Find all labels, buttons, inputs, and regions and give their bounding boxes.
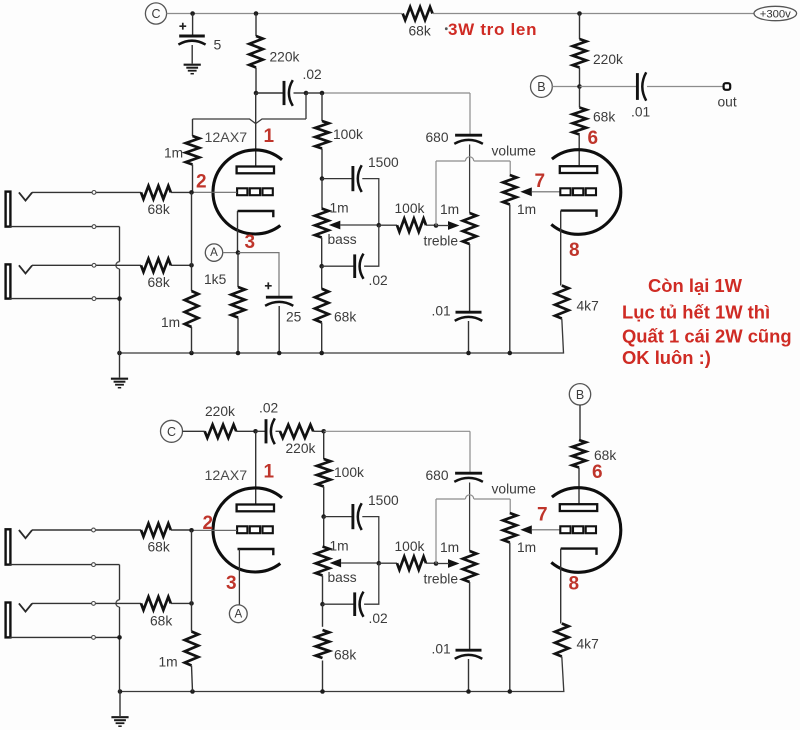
wire B to junction: [552, 86, 579, 88]
svg-text:1m: 1m: [517, 202, 536, 217]
wire grid row (bottom tube1): [192, 529, 237, 531]
ground rail junction dots: [117, 351, 122, 356]
junction dot jack2 sleeve bottom: [117, 635, 122, 640]
input jack 1 (bottom circuit): [6, 529, 11, 564]
svg-text:volume: volume: [492, 144, 537, 159]
wire 1m lower to ground rail: [191, 327, 193, 353]
svg-text:.02: .02: [369, 273, 388, 288]
wire tone feed across to 680 corner: [306, 92, 322, 94]
node dot after coupling cap: [304, 91, 309, 96]
junction dot B node: [577, 84, 582, 89]
wire 100k to 1500 node: [321, 149, 323, 179]
junction dot cathode node: [236, 250, 241, 255]
svg-text:2: 2: [203, 513, 214, 534]
wire 4k7 to rail corner (bottom): [120, 657, 564, 692]
tube right triode envelope (bottom): [551, 488, 620, 573]
resistor 68k in supply rail: [402, 6, 433, 21]
input jack 2 (top circuit): [6, 264, 11, 298]
svg-text:8: 8: [569, 240, 580, 261]
svg-text:1: 1: [264, 462, 275, 483]
svg-text:6: 6: [592, 462, 603, 483]
junction dot grid node: [189, 190, 194, 195]
ground rail junction dots (bottom): [118, 689, 123, 694]
capacitor .01 tone: [456, 311, 482, 314]
resistor 220k (left plate load): [249, 36, 263, 68]
wire feedback horizontal with V notch at plate lead: [193, 119, 307, 124]
wire volume node right leg to volume pot: [509, 161, 511, 175]
wire bass pot down to .02 node: [321, 238, 323, 267]
wire rail down to right 220k: [579, 14, 581, 40]
svg-text:C: C: [167, 425, 176, 439]
junction on rail at 220k: [254, 11, 259, 16]
resistor 220k series (bottom): [205, 425, 237, 438]
volume node horizontal wire (bottom): [436, 498, 465, 500]
svg-text:68k: 68k: [150, 614, 172, 629]
wire bass pot to .02 node (bottom): [322, 576, 324, 605]
wire jack1 sleeve (bottom): [10, 564, 120, 566]
wire cap 25 to ground rail: [278, 306, 280, 353]
wire bass wiper to junction: [340, 224, 379, 226]
resistor 100k vertical (bottom): [317, 459, 331, 487]
wire 1k5 to ground rail: [237, 318, 239, 354]
wire 100k top: [321, 93, 323, 121]
svg-text:1k5: 1k5: [204, 272, 227, 287]
wire coupling cap to tone node: [294, 92, 307, 94]
wire jack2 sleeve (bottom): [10, 636, 120, 638]
junction dot grid node bottom: [189, 528, 194, 533]
svg-text:2: 2: [196, 172, 207, 193]
tube plate bar bottom1: [237, 505, 274, 512]
wire bass wiper to junction (bottom): [341, 562, 379, 564]
wire to 68k tone (bottom): [322, 604, 324, 627]
wire jack2 tip to 68k: [32, 264, 141, 266]
capacitor .02 bass (bottom): [353, 592, 356, 616]
wire 680 down to treble (bottom): [469, 483, 471, 552]
tube right grid squares (bottom): [560, 526, 570, 533]
wire 220k to plate node: [236, 430, 255, 432]
capacitor .02 coupling (top): [283, 81, 286, 105]
wire cap .02 up corner to wiper junction: [364, 225, 379, 266]
wire cap 1500 corner down (bottom): [362, 517, 379, 564]
svg-text:220k: 220k: [593, 52, 623, 67]
resistor 68k (bottom right): [572, 440, 586, 468]
resistor 4k7 (bottom): [555, 624, 569, 657]
junction dot .02 node bottom: [320, 602, 325, 607]
wire 4k7 to ground rail corner: [120, 319, 564, 354]
resistor 68k tone stack bottom: [315, 289, 329, 323]
resistor 100k (tone stack vertical): [315, 121, 329, 149]
wire 68k input1 to grid node: [171, 191, 192, 193]
svg-text:100k: 100k: [334, 465, 364, 480]
svg-text:220k: 220k: [286, 441, 316, 456]
junction dot jack2 sleeve: [117, 296, 122, 301]
out terminal square: [724, 83, 731, 90]
tube plate bar (pin 1): [237, 167, 274, 174]
wire 68k tone to ground rail: [321, 323, 323, 354]
svg-text:12AX7: 12AX7: [205, 130, 248, 146]
wire jack2 tip (bottom): [32, 602, 141, 604]
svg-text:.01: .01: [631, 105, 650, 120]
wire 100k to 1500 node (bottom): [323, 487, 325, 517]
wire 1500 node to cap 1500: [322, 178, 353, 180]
contact circle jack2 sleeve bottom: [92, 636, 96, 640]
wire jack column with hop (bottom): [119, 565, 121, 600]
wire left column (bottom): [191, 530, 193, 603]
wire .02 node to cap .02: [322, 265, 355, 267]
wire jack column down with hop: [119, 227, 121, 262]
wire cap 1500 to corner and down: [362, 179, 379, 226]
contact circle jack2 tip bottom: [92, 602, 96, 606]
svg-text:Quất 1 cái 2W cũng: Quất 1 cái 2W cũng: [622, 326, 792, 347]
svg-text:1m: 1m: [161, 315, 180, 330]
wire cathode node to bypass cap corner: [238, 253, 279, 297]
volume wiper arrow (bottom): [520, 525, 532, 534]
wire cathode lead down: [237, 211, 239, 253]
power terminal +300v oval: [754, 6, 797, 20]
wire feedback: down from tone node: [305, 93, 307, 119]
input jack 1 (top circuit): [6, 192, 11, 227]
capacitor .02 (bass): [353, 254, 356, 278]
junction dot at 100k top: [320, 91, 325, 96]
volume node left leg (bottom): [435, 499, 437, 564]
resistor 1k5 cathode: [231, 287, 245, 318]
junction dot 1500 node: [320, 176, 325, 181]
wire 68k to plate (bottom tube2): [578, 468, 580, 505]
wire cathode lead down to A (bottom): [238, 549, 240, 605]
wire B node to .01 out cap: [580, 86, 638, 88]
svg-text:1m: 1m: [159, 655, 178, 670]
capacitor 5 electrolytic plus sign: [179, 23, 186, 30]
wire 100k top (bottom): [323, 431, 325, 459]
svg-text:1m: 1m: [440, 202, 459, 217]
volume wiper arrow: [520, 187, 532, 196]
resistor 220k right: [573, 39, 587, 68]
wire grid row from junction into tube: [192, 191, 237, 193]
wire .02 to 220k2 (bottom): [276, 430, 282, 432]
node A circle (top): [205, 244, 222, 261]
wire .01 out cap to out terminal: [647, 86, 724, 88]
wire plate node to .02 (bottom): [256, 430, 267, 432]
svg-text:A: A: [234, 608, 242, 620]
svg-text:220k: 220k: [270, 50, 300, 65]
wire B node down to 68k: [579, 87, 581, 108]
potentiometer volume 1m body: [503, 175, 517, 205]
junction dot .02 bass node: [319, 264, 324, 269]
wire volume wiper to grid (bottom): [532, 529, 561, 531]
wire to cap 1500 (bottom): [324, 516, 353, 518]
svg-text:bass: bass: [328, 232, 357, 247]
wire horizontal 100k to treble row: [379, 224, 397, 226]
svg-text:1m: 1m: [517, 540, 536, 555]
svg-text:volume: volume: [492, 482, 537, 497]
node plate junction dot: [254, 91, 259, 96]
svg-text:3: 3: [245, 232, 256, 253]
svg-text:7: 7: [535, 171, 546, 192]
svg-text:100k: 100k: [333, 127, 363, 142]
volume node right leg (bottom): [509, 499, 511, 513]
svg-text:68k: 68k: [334, 310, 356, 325]
svg-text:1m: 1m: [330, 201, 349, 216]
svg-text:68k: 68k: [593, 110, 615, 125]
svg-text:4k7: 4k7: [577, 637, 599, 652]
wire jack1 tip (bottom): [32, 529, 141, 531]
svg-text:Còn lại 1W: Còn lại 1W: [648, 275, 743, 296]
wire 680 down through volume node to treble pot: [469, 145, 471, 214]
wire rail to 220k plate resistor: [255, 14, 257, 37]
svg-text:1m: 1m: [164, 146, 183, 161]
wire to grid node (bottom): [171, 529, 192, 531]
capacitor 680: [455, 134, 482, 137]
wire tone node to 680 corner (bottom): [324, 430, 470, 432]
capacitor .02 coupling (bottom): [265, 419, 268, 443]
wire B down to 68k (bottom): [579, 405, 581, 440]
svg-text:1: 1: [264, 126, 275, 147]
contact circle jack2 sleeve: [92, 297, 96, 301]
wire volume pot to rail (bottom): [509, 543, 511, 692]
svg-text:68k: 68k: [148, 275, 170, 290]
capacitor .01 (bottom): [456, 649, 482, 652]
resistor 68k tone (bottom): [316, 630, 330, 658]
ground symbol (bottom circuit): [119, 692, 121, 717]
svg-text:5: 5: [214, 37, 222, 53]
wire treble to .01 (bottom): [469, 582, 471, 649]
resistor 100k horizontal: [397, 219, 426, 232]
node B circle (bottom): [569, 384, 590, 405]
wire top supply rail: [167, 13, 754, 15]
node C (top) terminal circle: [145, 3, 166, 24]
contact circle jack1 tip bottom: [92, 528, 96, 532]
node A circle (bottom): [229, 605, 247, 623]
volume node horizontal wire with hop: [436, 160, 465, 162]
wire down from 680 corner to 680 cap: [469, 93, 471, 134]
svg-text:68k: 68k: [594, 448, 616, 463]
junction dot treble node bottom: [434, 561, 439, 566]
wire cathode node down to 1k5: [237, 253, 239, 287]
wire cap .02 corner up (bottom): [364, 563, 379, 604]
wire .01 to ground rail: [468, 321, 470, 353]
contact circle jack1 sleeve bottom: [92, 563, 96, 567]
svg-text:1500: 1500: [368, 155, 399, 170]
wire 1m to rail (bottom): [192, 666, 193, 692]
resistor 100k horizontal (bottom): [397, 557, 426, 570]
wire plate lead down into tube pin 1: [255, 93, 257, 167]
svg-text:68k: 68k: [148, 202, 170, 217]
contact circle jack1 tip: [92, 191, 96, 195]
wire C to 220k series: [183, 430, 205, 432]
tube cathode bottom1: [238, 549, 274, 555]
svg-text:6: 6: [588, 128, 599, 149]
wire jack1 tip to 68k: [32, 191, 141, 193]
svg-text:+300v: +300v: [760, 9, 791, 21]
wire bass node down to 68k: [321, 266, 323, 289]
potentiometer bass 1m (bottom): [316, 547, 330, 576]
potentiometer treble 1m (bottom): [463, 551, 477, 582]
resistor 68k input 1: [141, 186, 171, 199]
capacitor 1500: [351, 166, 354, 191]
ground symbol below cap 5: [184, 64, 201, 66]
wire jack2 sleeve: [10, 298, 120, 300]
wire from rail down to filter cap 5: [192, 14, 194, 36]
input jack 2 (bottom circuit): [6, 603, 11, 638]
bass wiper arrow (bottom): [330, 559, 342, 568]
potentiometer treble 1m body: [463, 213, 477, 244]
capacitor .01 output: [636, 73, 639, 100]
wire 68k to tube plate pin 6: [578, 135, 580, 167]
svg-text:3: 3: [226, 573, 237, 594]
junction dot 1500 node (bottom): [321, 514, 326, 519]
wire node A to cathode junction: [223, 252, 238, 254]
svg-text:Lục tủ hết 1W thì: Lục tủ hết 1W thì: [622, 301, 770, 322]
wire volume node left leg down to treble wiper junction: [435, 161, 437, 226]
svg-text:220k: 220k: [205, 404, 235, 419]
ground symbol main (top circuit): [119, 353, 121, 378]
wire 220k to plate node: [255, 68, 257, 94]
capacitor 25 electrolytic bypass: [266, 296, 293, 299]
tube right cathode (bottom): [561, 549, 597, 555]
junction dot plate node (bottom): [253, 429, 258, 434]
junction dot tone node (bottom): [321, 429, 326, 434]
junction on rail at right 220k: [577, 11, 582, 16]
treble wiper arrow: [448, 221, 460, 230]
wire left column 1m lower: [191, 192, 193, 265]
wire to treble junction (bottom): [426, 562, 436, 564]
svg-text:8: 8: [569, 574, 580, 595]
node C circle (bottom): [161, 420, 183, 442]
svg-text:68k: 68k: [409, 24, 431, 39]
wire 68k input2 to column (bottom): [171, 602, 192, 604]
junction on rail at filter cap: [190, 11, 195, 16]
resistor 220k series 2 (bottom): [280, 425, 313, 438]
svg-text:1m: 1m: [330, 539, 349, 554]
tube right plate bar (bottom): [560, 504, 597, 511]
tube right cathode (pin 8): [561, 211, 597, 217]
node B circle (top): [531, 76, 553, 98]
svg-text:68k: 68k: [334, 648, 356, 663]
svg-text:.01: .01: [432, 304, 451, 319]
svg-text:1m: 1m: [440, 540, 459, 555]
wire 220k2 to tone node: [313, 430, 324, 432]
tube right grid squares (pin 7): [560, 188, 570, 195]
tube grid squares bottom1: [237, 526, 247, 533]
contact circle jack1 sleeve: [92, 225, 96, 229]
svg-text:1500: 1500: [368, 493, 399, 508]
wire jack1 sleeve: [10, 226, 120, 228]
wire plate lead (bottom tube1): [255, 431, 257, 504]
wire cathode down to 4k7 (bottom): [560, 549, 562, 624]
capacitor 5 (filter cap): [179, 35, 205, 38]
bass wiper arrow: [329, 221, 341, 230]
svg-text:.02: .02: [259, 401, 278, 416]
tube right triode envelope (top): [551, 150, 620, 235]
svg-text:680: 680: [426, 468, 449, 483]
svg-text:.01: .01: [432, 642, 451, 657]
svg-text:.02: .02: [369, 611, 388, 626]
resistor 1m (upper, feedback): [186, 136, 200, 165]
tube 12AX7 left triode envelope: [213, 150, 282, 234]
svg-text:3W tro len: 3W tro len: [448, 20, 537, 39]
wire .01 to rail (bottom): [468, 659, 470, 692]
resistor 1m lower left: [185, 291, 199, 327]
wire plate node to coupling cap: [256, 92, 284, 94]
wire to cap .02 (bottom): [323, 603, 355, 605]
contact circle jack2 tip: [92, 263, 96, 267]
resistor 1m lower (bottom): [185, 632, 199, 666]
capacitor 25 bypass plus sign: [265, 282, 272, 289]
svg-text:C: C: [151, 7, 160, 21]
svg-text:bass: bass: [328, 570, 357, 585]
svg-text:B: B: [576, 388, 584, 402]
wire down to 1m grid resistor (upper): [192, 119, 194, 136]
wire volume wiper to tube grid: [532, 191, 561, 193]
svg-text:out: out: [718, 95, 737, 110]
junction dot input2 node: [189, 263, 194, 268]
svg-text:100k: 100k: [395, 201, 425, 216]
svg-text:680: 680: [426, 130, 449, 145]
wire right cathode down to 4k7: [560, 211, 562, 286]
resistor 68k right: [573, 108, 587, 135]
svg-text:.02: .02: [303, 67, 322, 82]
wire 68k input2 to column: [171, 264, 192, 266]
potentiometer bass 1m body: [315, 209, 329, 238]
resistor 4k7: [555, 286, 569, 319]
resistor 68k input1 (bottom): [141, 523, 171, 536]
resistor 68k input 2: [141, 259, 171, 272]
wire volume pot bottom to ground rail: [509, 205, 511, 354]
tube 12AX7 left triode envelope (bottom): [213, 488, 282, 572]
junction dot treble wiper node: [434, 223, 439, 228]
svg-text:OK luôn :): OK luôn :): [622, 347, 711, 368]
svg-text:4k7: 4k7: [577, 299, 599, 314]
capacitor 1500 (bottom): [351, 504, 354, 529]
wire down to 680 (bottom): [469, 431, 471, 472]
svg-text:A: A: [210, 247, 218, 259]
junction dot input2 bottom: [189, 601, 194, 606]
svg-text:68k: 68k: [148, 540, 170, 555]
tube cathode (pin 3): [238, 211, 274, 217]
svg-text:B: B: [537, 80, 545, 94]
junction dot bass wiper bottom: [377, 561, 382, 566]
wire bass column down to pot: [321, 179, 323, 209]
svg-text:7: 7: [537, 505, 548, 526]
wire 1m to grid node: [192, 165, 194, 193]
svg-text:treble: treble: [424, 572, 459, 587]
capacitor 680 (bottom): [455, 472, 482, 475]
svg-text:100k: 100k: [395, 539, 425, 554]
svg-text:treble: treble: [424, 234, 459, 249]
wire bass column (bottom): [323, 517, 325, 547]
potentiometer volume 1m (bottom): [503, 513, 517, 543]
treble wiper arrow (bottom): [448, 559, 460, 568]
svg-text:25: 25: [286, 310, 302, 325]
svg-text:12AX7: 12AX7: [205, 468, 248, 484]
wire 220k right to B node: [579, 68, 581, 87]
wire 68k tone to rail (bottom): [322, 661, 324, 692]
wire treble pot to .01 cap: [469, 244, 471, 311]
resistor 68k input2 (bottom): [141, 597, 171, 610]
wire cap 5 to ground: [191, 45, 193, 64]
tube grid squares (pin 2): [237, 188, 247, 195]
wire 100k to treble junction: [426, 224, 436, 226]
tube right plate bar (pin 6): [560, 166, 597, 173]
junction dot bass wiper: [377, 223, 382, 228]
wire to horizontal 100k (bottom): [379, 562, 397, 564]
